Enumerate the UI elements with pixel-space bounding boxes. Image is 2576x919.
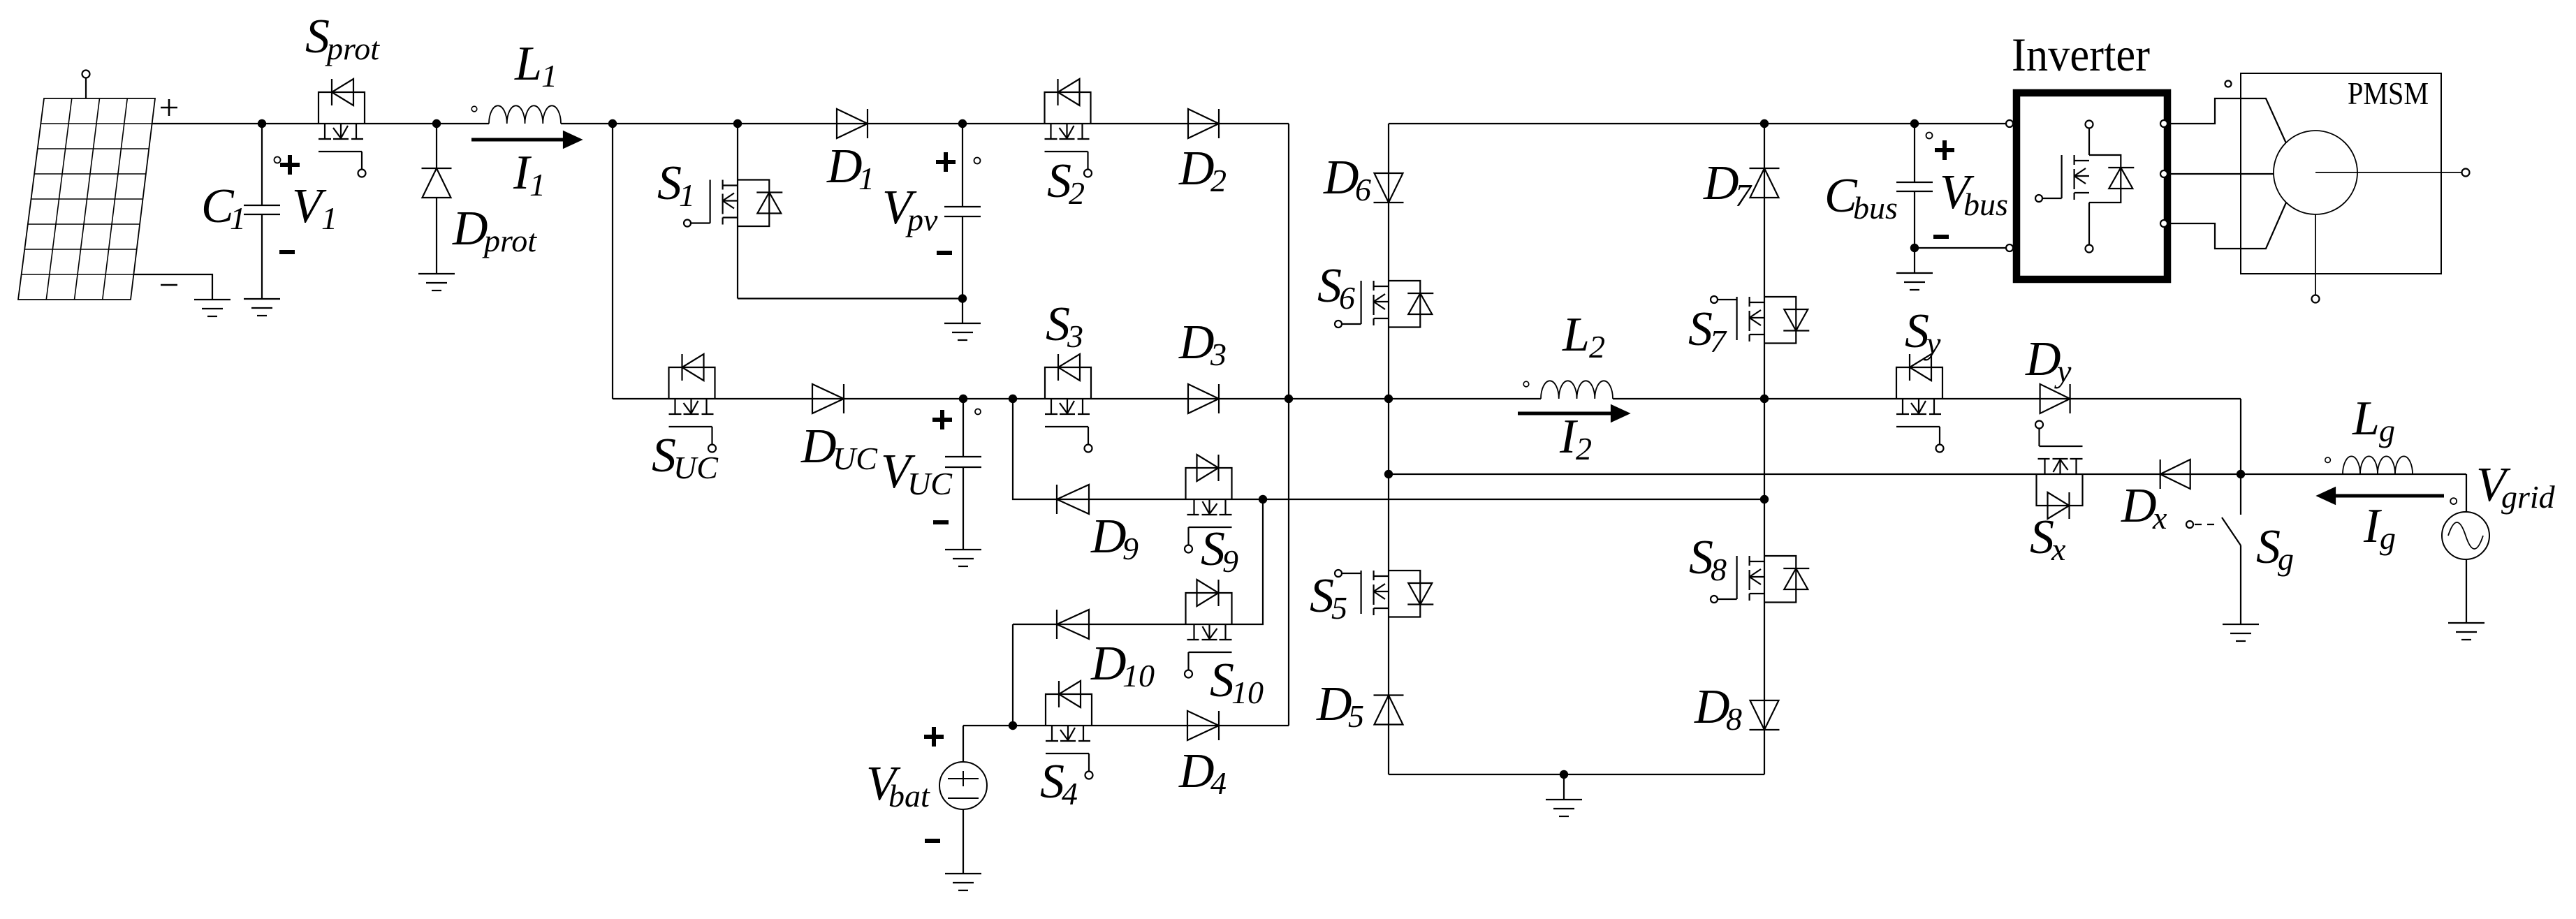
svg-text:9: 9 — [1222, 543, 1238, 579]
svg-text:y: y — [2054, 353, 2072, 389]
wire V_UC branch — [963, 399, 964, 550]
Vpv minus — [937, 251, 952, 255]
node Cbus bottom — [1910, 244, 1919, 252]
ground Vgrid — [2448, 623, 2484, 640]
svg-text:D: D — [800, 420, 837, 473]
node S6 bottom rail — [1384, 395, 1393, 403]
svg-text:5: 5 — [1348, 698, 1364, 734]
PV plus sign — [161, 99, 177, 116]
svg-text:S: S — [1689, 531, 1713, 585]
wire S1 source to Vpv bottom — [738, 297, 963, 299]
V_UC minus — [933, 520, 949, 524]
diode Dx — [2160, 459, 2190, 489]
svg-text:D: D — [1694, 680, 1730, 734]
ground Vpv — [944, 323, 981, 340]
svg-text:1: 1 — [541, 58, 557, 94]
switch S4 MOSFET — [1046, 681, 1093, 779]
ground bridge — [1546, 800, 1582, 816]
wire top bus left section — [152, 123, 1289, 124]
Vbus plus — [1935, 140, 1954, 160]
svg-text:bat: bat — [888, 778, 930, 814]
svg-text:S: S — [1905, 304, 1929, 358]
source V_bat — [939, 762, 987, 809]
wire bridge ground stem — [1563, 774, 1565, 800]
svg-text:6: 6 — [1355, 172, 1371, 207]
node D9 branch top — [1009, 395, 1017, 403]
PV terminal circle — [82, 71, 90, 78]
svg-text:6: 6 — [1339, 280, 1355, 316]
PMSM box — [2241, 73, 2441, 274]
diode D3 — [1188, 384, 1219, 413]
svg-text:1: 1 — [858, 161, 874, 196]
svg-text:g: g — [2380, 520, 2396, 556]
node Sg junction — [2237, 470, 2245, 478]
diode D5 — [1374, 696, 1404, 725]
arrow I1 current — [471, 138, 566, 142]
source Vgrid — [2442, 512, 2489, 559]
wire middle rail with L2 — [613, 398, 2241, 399]
diode D6 — [1374, 173, 1404, 203]
capacitor V_UC — [945, 457, 981, 467]
svg-text:S: S — [1688, 302, 1713, 356]
transistor S5 — [1335, 570, 1433, 617]
svg-text:1: 1 — [529, 167, 546, 203]
svg-text:S: S — [657, 156, 682, 210]
node S8 top rail — [1760, 495, 1769, 503]
svg-text:D: D — [1323, 151, 1359, 205]
wire top bus middle section — [1389, 123, 2005, 124]
svg-text:3: 3 — [1067, 318, 1083, 354]
arrow Ig current — [2333, 494, 2444, 498]
inductor L1 — [489, 105, 561, 124]
switch Sx MOSFET — [2035, 421, 2083, 520]
wire Vgrid drop — [2466, 474, 2467, 623]
Vbus minus — [1933, 235, 1949, 239]
svg-text:PMSM: PMSM — [2348, 75, 2429, 111]
Vbus marker circle — [1926, 133, 1933, 139]
inverter left pin bottom — [2006, 244, 2013, 251]
inverter left pin top — [2006, 120, 2013, 127]
svg-text:D: D — [2025, 332, 2061, 386]
svg-text:UC: UC — [833, 441, 878, 476]
capacitor C1 — [244, 205, 280, 214]
switch Sg — [2186, 474, 2241, 624]
svg-text:S: S — [1317, 259, 1342, 313]
transistor S1 — [684, 124, 782, 299]
svg-text:9: 9 — [1122, 531, 1139, 566]
svg-text:D: D — [1316, 677, 1352, 731]
svg-text:S: S — [652, 429, 676, 483]
svg-text:D: D — [452, 202, 488, 256]
switch S_prot MOSFET — [319, 79, 366, 177]
svg-text:D: D — [826, 140, 863, 193]
svg-text:S: S — [1046, 297, 1070, 351]
Vgrid marker circle — [2450, 498, 2457, 504]
diode D4 — [1187, 711, 1219, 740]
L2 marker circle — [1523, 381, 1529, 387]
diode D_UC — [812, 384, 844, 413]
transistor S6 — [1335, 281, 1433, 328]
arrow I2 current — [1518, 412, 1613, 416]
V1 marker circle — [275, 157, 281, 163]
svg-text:2: 2 — [1576, 431, 1592, 466]
ground V_bat — [945, 874, 981, 890]
diode D1 — [837, 109, 868, 138]
node Cbus top — [1910, 119, 1919, 128]
node D_prot top — [432, 119, 441, 128]
svg-text:1: 1 — [679, 177, 695, 213]
svg-text:S: S — [2256, 520, 2281, 574]
V_UC marker circle — [975, 409, 981, 415]
inverter right pin B — [2160, 170, 2167, 177]
svg-text:S: S — [1310, 569, 1334, 623]
switch S9 MOSFET — [1185, 455, 1232, 553]
inductor Lg — [2343, 456, 2413, 474]
wire battery lead — [963, 726, 964, 874]
wire vertical D7/S7/S8/D8 leg — [1764, 124, 1765, 774]
wire S10 left drop to battery node — [1012, 624, 1013, 726]
ground PV — [194, 300, 230, 316]
PMSM free terminal — [2225, 81, 2232, 87]
svg-text:bus: bus — [1853, 190, 1898, 226]
svg-text:prot: prot — [482, 223, 537, 258]
svg-text:2: 2 — [1069, 175, 1085, 211]
node D7 top — [1760, 119, 1769, 128]
svg-text:pv: pv — [905, 202, 938, 237]
svg-text:Inverter: Inverter — [2012, 28, 2150, 81]
node bottom rail ground — [1560, 770, 1568, 779]
switch Sy MOSFET — [1896, 354, 1944, 453]
PV minus sign — [161, 284, 177, 286]
inverter right pin C — [2160, 220, 2167, 227]
motor shaft terminal — [2462, 169, 2470, 177]
L1 marker circle — [471, 106, 477, 112]
node L1 right — [608, 119, 617, 128]
solar panel PV array — [18, 98, 155, 300]
svg-text:4: 4 — [1062, 776, 1078, 811]
node C1 top — [258, 119, 266, 128]
node V_UC top — [959, 395, 967, 403]
inverter IGBT symbol — [2035, 121, 2134, 253]
wire bridge bottom rail — [1389, 774, 1764, 775]
svg-text:7: 7 — [1710, 323, 1727, 359]
svg-text:S: S — [1210, 654, 1234, 707]
motor bottom lead — [2315, 214, 2316, 295]
svg-text:5: 5 — [1331, 590, 1347, 626]
wire D9/S9 rail — [1013, 399, 1764, 499]
svg-text:D: D — [1703, 156, 1739, 210]
svg-text:g: g — [2278, 541, 2294, 577]
wire vertical drop from L1 node — [612, 124, 613, 399]
wire battery S4 D4 rail — [963, 725, 1289, 726]
svg-text:x: x — [2051, 531, 2066, 567]
svg-text:S: S — [2030, 510, 2054, 564]
svg-text:D: D — [1178, 316, 1215, 369]
svg-text:2: 2 — [1210, 163, 1227, 198]
Vpv marker circle — [974, 158, 981, 164]
node lower rail start — [1384, 470, 1393, 478]
motor shaft lead — [2315, 172, 2461, 173]
node Vpv bottom junction — [958, 294, 967, 302]
node S1 drain — [733, 119, 742, 128]
svg-text:g: g — [2379, 413, 2395, 448]
wire right vertical D2/D3/D4 branch — [1288, 124, 1289, 726]
wire Cbus branch — [1914, 124, 1915, 273]
wire PV bottom lead — [133, 274, 212, 300]
wire inverter phase C — [2167, 203, 2286, 249]
wire lower rail to grid — [1389, 473, 2466, 475]
svg-text:1: 1 — [230, 200, 246, 236]
node S9 right — [1259, 495, 1267, 503]
svg-text:bus: bus — [1963, 186, 2008, 222]
wire Sy Dy corner drop — [2240, 399, 2241, 474]
wire vertical D6/S6/S5/D5 leg — [1388, 124, 1389, 774]
inverter right pin A — [2160, 120, 2167, 127]
wire Vbus bottom to inverter — [1915, 247, 2005, 249]
V_UC plus — [932, 410, 952, 429]
svg-text:D: D — [1090, 637, 1127, 691]
ground Sg — [2223, 624, 2259, 641]
svg-text:S: S — [1201, 522, 1225, 576]
svg-text:D: D — [2121, 479, 2157, 533]
V1 plus — [280, 155, 300, 175]
ground C1 — [244, 299, 280, 316]
Vpv plus — [936, 152, 956, 172]
svg-text:prot: prot — [325, 31, 380, 66]
svg-text:8: 8 — [1726, 701, 1742, 737]
inductor L2 — [1541, 381, 1613, 399]
V_bat minus — [925, 839, 940, 843]
svg-text:S: S — [1040, 755, 1064, 809]
diode D_prot — [422, 168, 452, 198]
svg-text:UC: UC — [907, 466, 953, 501]
node Vpv top — [958, 119, 967, 128]
wire D_prot branch — [436, 124, 437, 274]
wire C1 branch — [261, 124, 263, 299]
Lg marker circle — [2325, 457, 2331, 463]
svg-text:D: D — [1090, 510, 1127, 564]
ground V_UC — [945, 550, 981, 566]
transistor S7 — [1711, 296, 1809, 344]
diode D9 — [1057, 485, 1089, 514]
motor bottom terminal — [2312, 295, 2320, 303]
svg-text:S: S — [1047, 154, 1071, 208]
svg-text:D: D — [1178, 744, 1215, 798]
switch S3 MOSFET — [1045, 354, 1092, 453]
svg-text:S: S — [305, 10, 330, 64]
V_bat plus — [924, 727, 944, 747]
node battery junction — [1009, 721, 1017, 730]
motor winding circle — [2274, 131, 2357, 214]
switch S_UC MOSFET — [669, 354, 717, 453]
ground Cbus — [1896, 273, 1933, 290]
switch S2 MOSFET — [1045, 79, 1092, 177]
V1 minus — [279, 250, 295, 254]
svg-text:y: y — [1924, 325, 1941, 361]
svg-text:7: 7 — [1735, 177, 1752, 213]
svg-text:L: L — [2352, 392, 2380, 446]
wire inverter phase A — [2167, 98, 2286, 143]
diode D10 — [1057, 610, 1089, 639]
switch S10 MOSFET — [1185, 580, 1232, 678]
transistor S8 — [1711, 556, 1809, 603]
wire Vpv branch — [962, 124, 963, 323]
inverter box — [2017, 93, 2167, 279]
svg-text:x: x — [2152, 500, 2167, 536]
svg-text:3: 3 — [1210, 337, 1227, 372]
svg-text:8: 8 — [1711, 552, 1727, 587]
wire inverter phase B — [2167, 173, 2274, 175]
node S7 bottom rail — [1760, 395, 1769, 403]
capacitor Vpv — [944, 207, 981, 216]
svg-text:L: L — [1562, 308, 1590, 362]
diode Dy — [2040, 384, 2070, 413]
svg-text:10: 10 — [1122, 658, 1155, 693]
svg-text:UC: UC — [673, 450, 719, 485]
svg-text:10: 10 — [1231, 675, 1264, 710]
ground D_prot — [418, 274, 455, 291]
wire S10 rail — [1013, 499, 1263, 624]
svg-text:2: 2 — [1589, 329, 1605, 365]
svg-text:1: 1 — [321, 200, 337, 236]
node D3 right — [1285, 395, 1293, 403]
svg-text:L: L — [514, 37, 542, 91]
diode D8 — [1750, 700, 1780, 730]
diode D2 — [1188, 109, 1219, 138]
svg-text:4: 4 — [1210, 765, 1227, 801]
svg-text:grid: grid — [2501, 479, 2556, 515]
diode D7 — [1750, 168, 1780, 198]
svg-text:D: D — [1178, 142, 1215, 196]
capacitor Cbus — [1896, 182, 1933, 191]
